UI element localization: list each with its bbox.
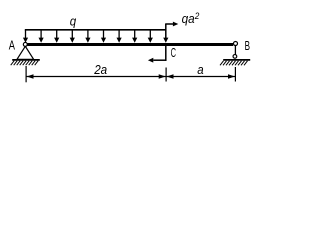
svg-text:qa: qa xyxy=(182,12,195,26)
svg-text:A: A xyxy=(9,38,15,53)
svg-text:q: q xyxy=(70,15,76,29)
svg-text:B: B xyxy=(245,39,250,53)
svg-text:2a: 2a xyxy=(93,63,107,77)
svg-text:a: a xyxy=(197,63,203,77)
svg-text:C: C xyxy=(171,46,176,60)
svg-text:2: 2 xyxy=(194,11,200,22)
